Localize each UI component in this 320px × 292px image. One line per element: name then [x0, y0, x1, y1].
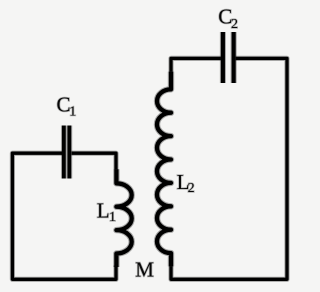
label C1 — [57, 93, 77, 120]
label L2 — [177, 170, 195, 196]
wire: left loop top-right segment down to L1 top — [72, 153, 117, 169]
capacitor C1 — [64, 126, 70, 179]
svg-text:1: 1 — [69, 105, 76, 120]
wire: left loop top-left segment, left side, bottom, riser to L1 bottom — [12, 153, 116, 279]
wire: right loop top-right segment, right side, bottom, riser to L2 bottom — [171, 58, 287, 279]
wire: right loop top-left segment down to L2 top — [171, 58, 221, 71]
inductor L2 — [157, 72, 171, 267]
svg-text:L: L — [97, 199, 110, 223]
svg-text:2: 2 — [188, 181, 195, 196]
inductor L1 — [116, 169, 131, 267]
label L1 — [97, 199, 116, 226]
svg-text:1: 1 — [109, 210, 116, 225]
svg-text:M: M — [135, 258, 154, 282]
svg-text:2: 2 — [231, 17, 238, 32]
capacitor C2 — [223, 32, 234, 83]
label C2 — [218, 5, 238, 32]
